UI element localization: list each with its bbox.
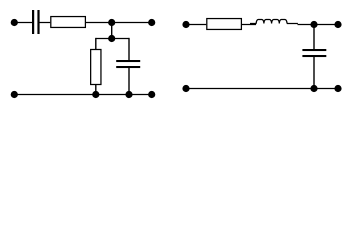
wire: C2 bottom plate to bottom rail bbox=[128, 68, 130, 95]
wire top rail: R3 to L1 bbox=[241, 24, 256, 26]
node: junction below C3 bbox=[310, 85, 317, 92]
inductor L1 (4 flat-topped arcs) bbox=[256, 20, 287, 24]
wire top rail: input to R3 bbox=[186, 24, 206, 26]
wire branch bar at node B bbox=[96, 38, 130, 40]
wire: node C down to C3 top plate bbox=[313, 25, 315, 50]
node: input terminal top left bbox=[11, 19, 18, 26]
node B junction of shunt branch bbox=[108, 35, 115, 42]
node C junction on top rail bbox=[310, 21, 317, 28]
resistor R3 (series box) bbox=[207, 19, 242, 30]
right circuit: series R-L with shunt C bbox=[186, 24, 338, 89]
wire top rail: C1 to R1 bbox=[39, 22, 50, 24]
node: bottom left terminal bbox=[11, 91, 18, 98]
capacitor C3 (shunt, top plate) bbox=[302, 49, 326, 51]
node: junction below R2 bbox=[92, 91, 99, 98]
capacitor C2 (shunt, top plate) bbox=[116, 60, 140, 62]
capacitor C1 (series, left plate) bbox=[32, 10, 34, 34]
node: bottom right terminal of left circuit bbox=[148, 91, 155, 98]
node: output terminal top right bbox=[334, 21, 341, 28]
wire: node B bar down to C2 top plate bbox=[128, 38, 130, 61]
wire top rail left: input to C1 bbox=[14, 22, 32, 24]
capacitor C2 (shunt, bottom plate) bbox=[116, 66, 140, 68]
node: bottom right terminal bbox=[334, 85, 341, 92]
resistor R1 (series box) bbox=[51, 17, 86, 28]
node: input terminal top left (right circuit) bbox=[182, 21, 189, 28]
wire tail out of L1 bbox=[287, 23, 298, 25]
wire vertical: node A down to node B bbox=[111, 23, 113, 39]
wire bottom rail bbox=[14, 94, 151, 96]
wire top rail: L1 tail to node C and output bbox=[298, 24, 339, 26]
node: junction below C2 bbox=[125, 91, 132, 98]
node: output terminal top right of left circuit bbox=[148, 19, 155, 26]
wire top rail: R1 to node A and output bbox=[86, 22, 152, 24]
wire: node B bar down to R2 top bbox=[95, 38, 97, 50]
wire bottom rail bbox=[186, 88, 338, 90]
wire stub rising into L1 bbox=[250, 23, 257, 25]
capacitor C3 (shunt, bottom plate) bbox=[302, 55, 326, 57]
node: bottom left terminal (right circuit) bbox=[182, 85, 189, 92]
capacitor C1 (series, right plate) bbox=[37, 10, 39, 34]
node A junction on top rail bbox=[108, 19, 115, 26]
resistor R2 (shunt box) bbox=[91, 50, 101, 85]
wire: R2 bottom to bottom rail bbox=[95, 85, 97, 95]
wire: C3 bottom plate to bottom rail bbox=[313, 57, 315, 89]
left circuit: series C-R with shunt R||C bbox=[14, 23, 151, 95]
